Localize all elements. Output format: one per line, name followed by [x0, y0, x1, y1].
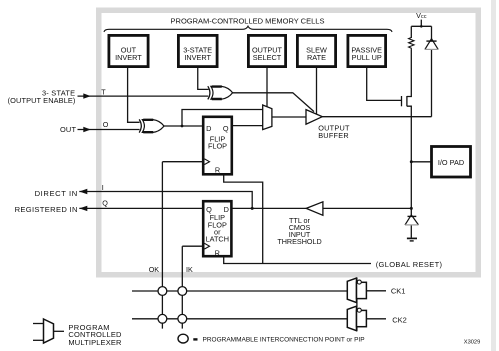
svg-text:SELECT: SELECT [253, 53, 282, 62]
svg-text:R: R [215, 248, 220, 257]
svg-text:R: R [215, 165, 220, 174]
svg-text:Q: Q [223, 124, 229, 133]
svg-text:I/O PAD: I/O PAD [438, 158, 464, 167]
svg-text:REGISTERED IN: REGISTERED IN [15, 205, 78, 214]
svg-text:FLOP: FLOP [208, 142, 227, 151]
svg-text:OK: OK [149, 265, 160, 274]
svg-text:DIRECT IN: DIRECT IN [35, 189, 78, 198]
svg-text:LATCH: LATCH [206, 235, 229, 244]
svg-text:(OUTPUT ENABLE): (OUTPUT ENABLE) [8, 96, 76, 105]
svg-text:CK1: CK1 [391, 287, 406, 296]
svg-text:PROGRAM-CONTROLLED MEMORY CELL: PROGRAM-CONTROLLED MEMORY CELLS [171, 17, 325, 26]
svg-text:Q: Q [102, 199, 108, 208]
svg-text:BUFFER: BUFFER [318, 131, 349, 140]
svg-text:INVERT: INVERT [184, 53, 211, 62]
svg-text:THRESHOLD: THRESHOLD [277, 237, 321, 246]
svg-text:PROGRAMMABLE INTERCONNECTION P: PROGRAMMABLE INTERCONNECTION POINT or PI… [203, 336, 365, 343]
svg-text:PULL UP: PULL UP [352, 53, 382, 62]
svg-text:MULTIPLEXER: MULTIPLEXER [68, 338, 122, 347]
svg-text:IK: IK [186, 265, 193, 274]
svg-text:D: D [206, 124, 211, 133]
svg-text:I: I [102, 183, 104, 192]
svg-text:RATE: RATE [307, 53, 326, 62]
svg-text:INVERT: INVERT [115, 53, 142, 62]
svg-text:CK2: CK2 [392, 315, 407, 324]
svg-text:(GLOBAL RESET): (GLOBAL RESET) [376, 260, 443, 269]
svg-text:X3029: X3029 [464, 340, 480, 346]
svg-text:OUT: OUT [60, 125, 76, 134]
svg-text:T: T [101, 88, 106, 97]
svg-text:O: O [103, 120, 109, 129]
